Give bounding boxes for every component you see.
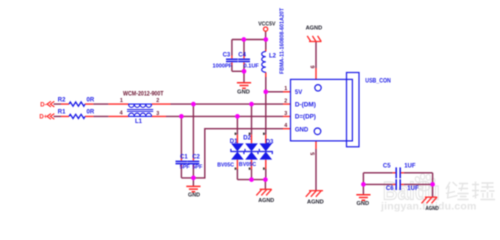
svg-text:5PF: 5PF bbox=[192, 164, 203, 170]
svg-text:USB_CON: USB_CON bbox=[365, 79, 391, 85]
svg-text:AGND: AGND bbox=[306, 25, 323, 31]
svg-text:2: 2 bbox=[156, 98, 159, 104]
svg-text:D+: D+ bbox=[39, 115, 47, 121]
svg-text:0.1UF: 0.1UF bbox=[244, 63, 260, 69]
svg-text:5PF: 5PF bbox=[180, 164, 191, 170]
svg-text:D-(DM): D-(DM) bbox=[295, 102, 316, 108]
svg-text:C1: C1 bbox=[180, 154, 188, 160]
svg-text:3: 3 bbox=[284, 111, 287, 117]
svg-text:GND: GND bbox=[237, 89, 250, 95]
svg-text:R2: R2 bbox=[58, 97, 66, 103]
svg-text:C5: C5 bbox=[383, 164, 391, 170]
svg-text:D2: D2 bbox=[243, 136, 251, 142]
svg-text:R1: R1 bbox=[58, 110, 66, 116]
svg-text:D1: D1 bbox=[230, 139, 238, 145]
svg-text:6: 6 bbox=[311, 65, 317, 68]
svg-text:BV05C: BV05C bbox=[217, 163, 234, 169]
svg-text:C2: C2 bbox=[192, 154, 200, 160]
svg-text:WCM-2012-900T: WCM-2012-900T bbox=[123, 92, 164, 98]
svg-text:GND: GND bbox=[295, 127, 309, 133]
svg-text:D-: D- bbox=[40, 102, 46, 108]
svg-text:2: 2 bbox=[284, 98, 287, 104]
svg-text:AGND: AGND bbox=[426, 206, 439, 212]
svg-text:GND: GND bbox=[188, 193, 200, 199]
svg-text:1: 1 bbox=[120, 98, 123, 104]
svg-text:0R: 0R bbox=[87, 110, 95, 116]
svg-text:3: 3 bbox=[156, 111, 159, 117]
svg-text:4: 4 bbox=[120, 111, 123, 117]
svg-text:L2: L2 bbox=[269, 53, 277, 59]
svg-text:C4: C4 bbox=[238, 53, 246, 59]
svg-text:L1: L1 bbox=[135, 119, 143, 125]
svg-text:D=(DP): D=(DP) bbox=[295, 115, 316, 121]
svg-text:D3: D3 bbox=[266, 140, 274, 146]
svg-text:BV05C: BV05C bbox=[239, 162, 256, 168]
svg-text:5V: 5V bbox=[295, 90, 302, 96]
svg-text:1000PF: 1000PF bbox=[213, 63, 233, 69]
svg-text:GND: GND bbox=[357, 201, 370, 207]
svg-text:VCC5V: VCC5V bbox=[258, 22, 275, 28]
svg-text:AGND: AGND bbox=[307, 200, 324, 206]
svg-text:AGND: AGND bbox=[258, 198, 274, 204]
svg-text:C3: C3 bbox=[223, 52, 231, 58]
svg-text:FBMA-11-160808-601A20T: FBMA-11-160808-601A20T bbox=[280, 7, 286, 74]
svg-text:0R: 0R bbox=[87, 97, 95, 103]
svg-text:1UF: 1UF bbox=[404, 164, 416, 170]
svg-text:1: 1 bbox=[284, 86, 287, 92]
svg-text:4: 4 bbox=[284, 123, 287, 129]
svg-text:1UF: 1UF bbox=[407, 186, 419, 192]
svg-text:C6: C6 bbox=[386, 186, 394, 192]
svg-text:5: 5 bbox=[311, 152, 317, 155]
